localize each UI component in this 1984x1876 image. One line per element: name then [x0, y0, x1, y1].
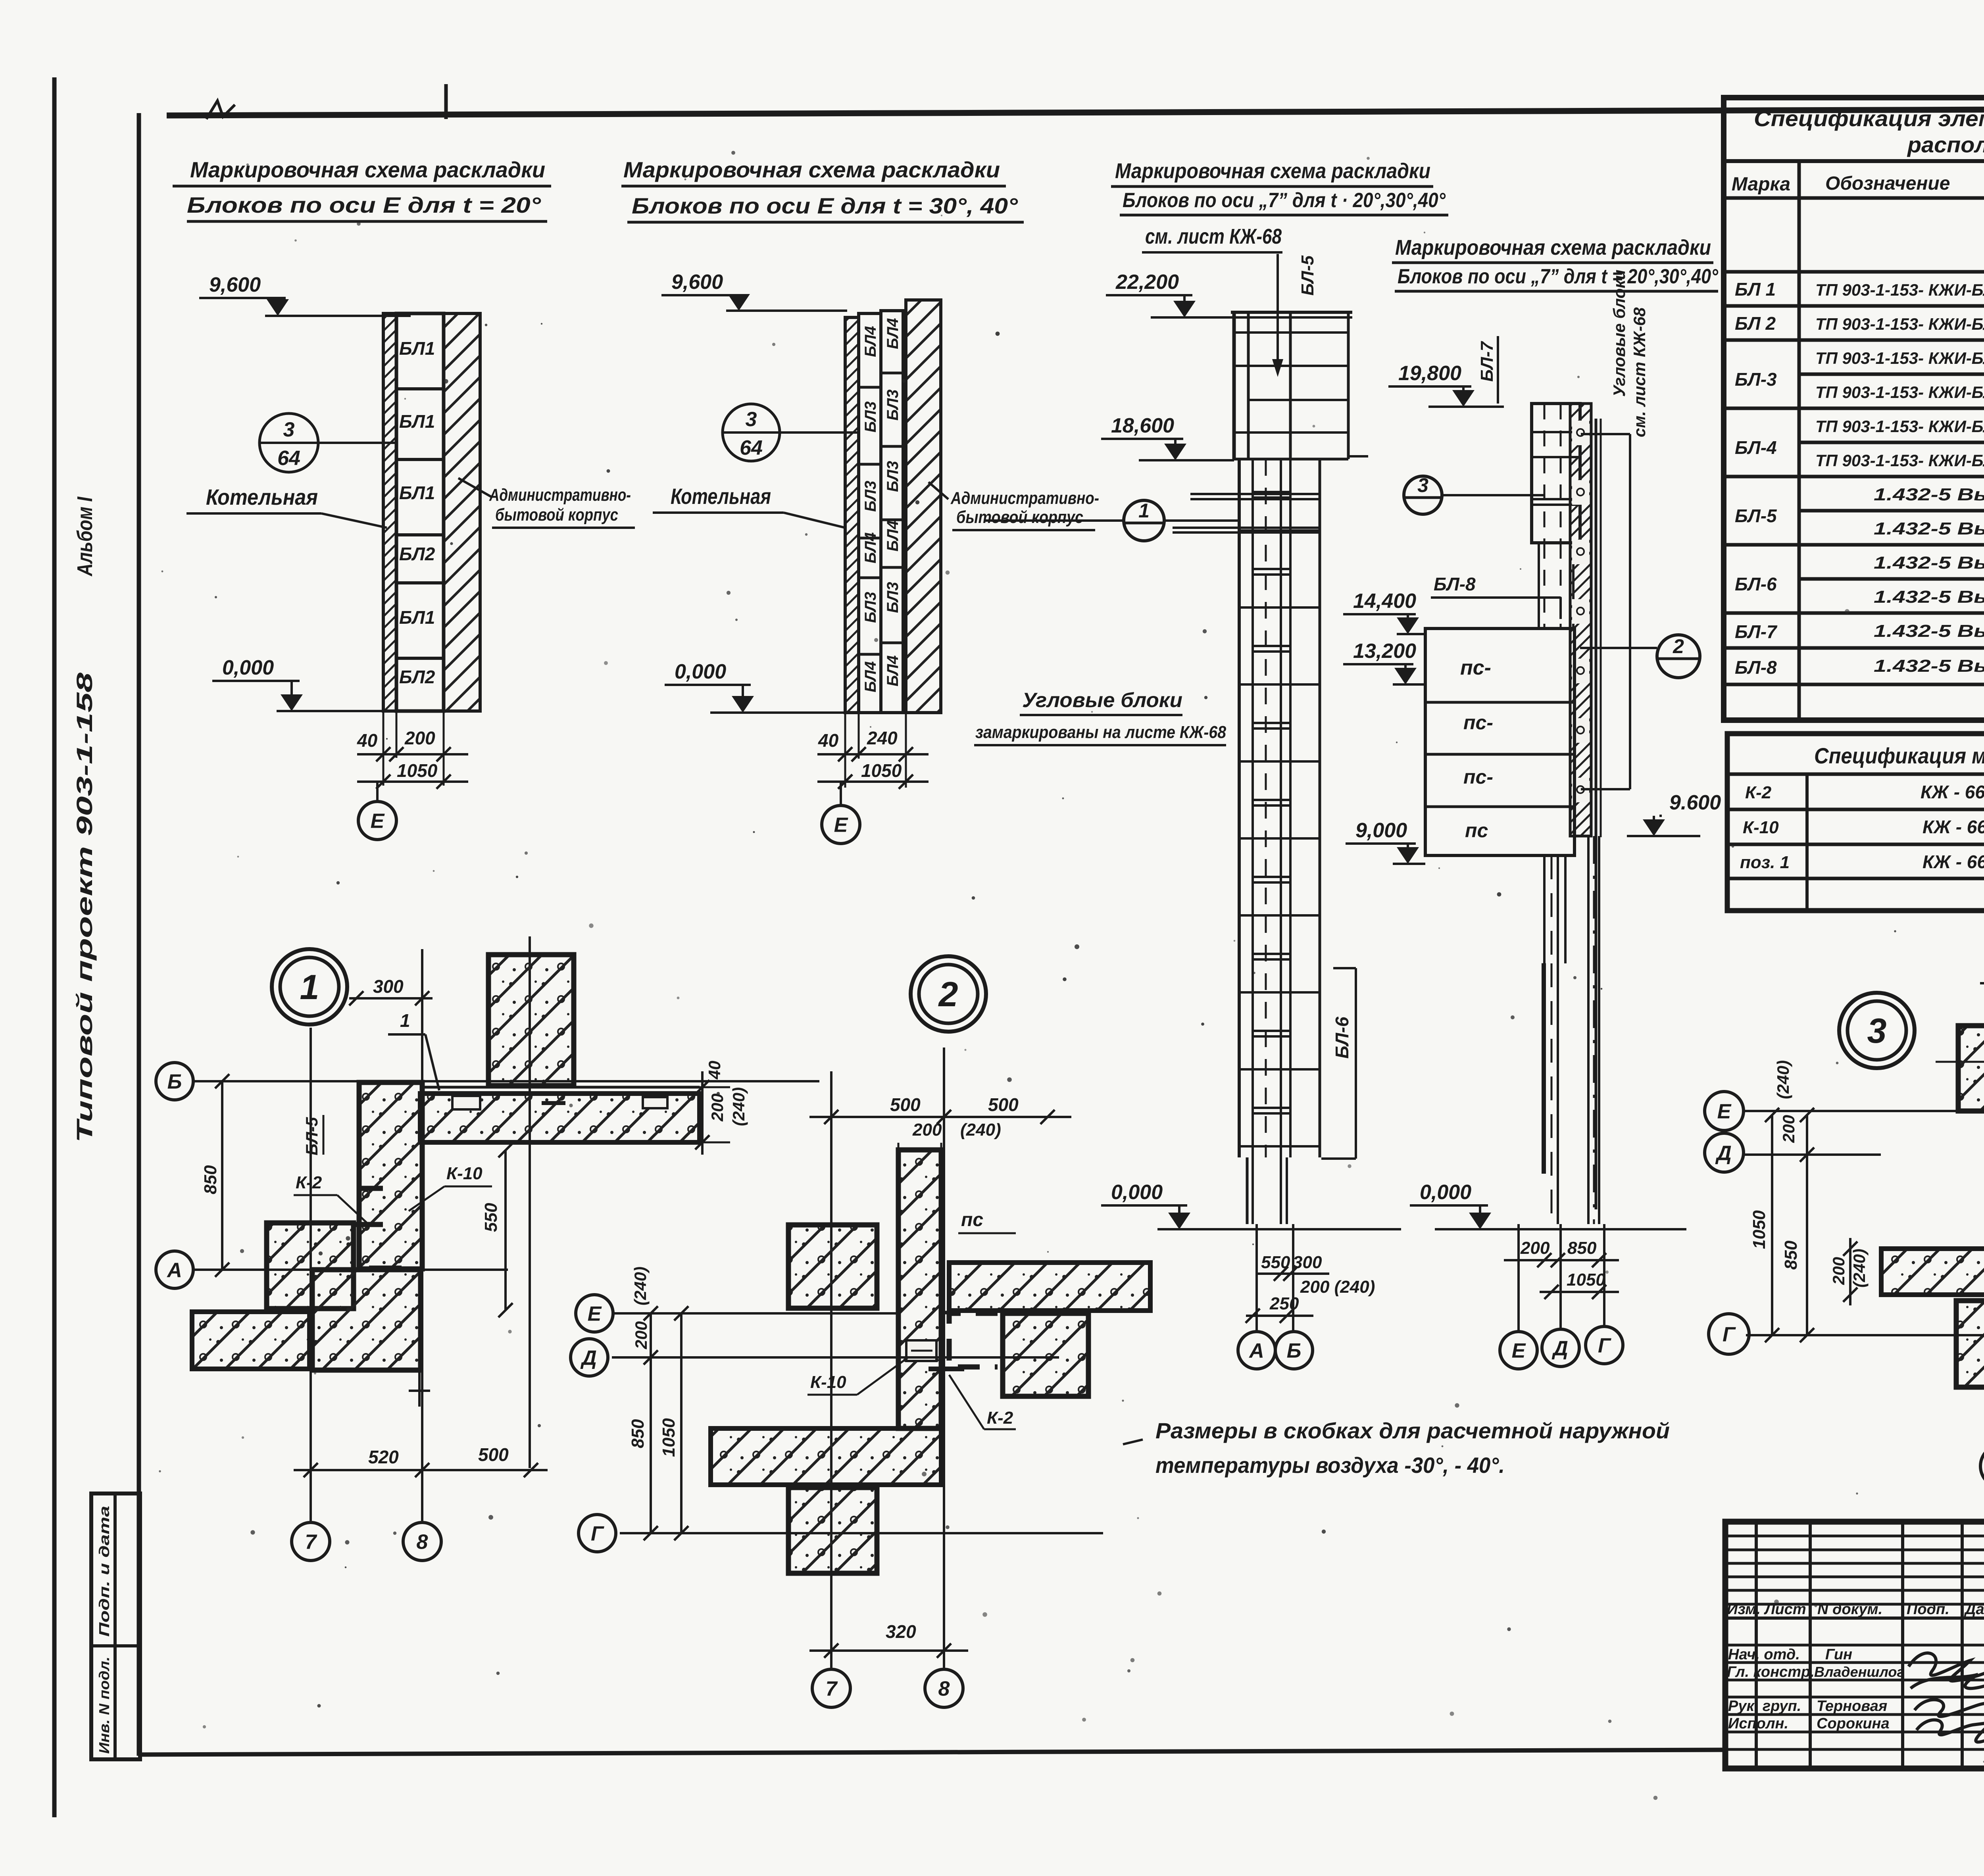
svg-text:9,600: 9,600: [671, 271, 723, 294]
sheet frame bottom border: [139, 1750, 1727, 1755]
svg-text:9,600: 9,600: [209, 273, 261, 296]
svg-text:пс-: пс-: [1460, 656, 1491, 679]
svg-text:БЛ-3: БЛ-3: [1735, 369, 1777, 390]
detail 2 axis D line: [612, 1356, 1059, 1359]
scheme 2 building hatch: [906, 300, 941, 713]
scheme 2 dim line upper: [817, 753, 929, 755]
svg-text:Блоков по оси Е дл: Блоков по оси Е для t = 20°: [187, 192, 541, 217]
PS panel dividers: [1425, 701, 1575, 704]
detail 3 bottom slab: [1881, 1249, 1984, 1295]
svg-text:бытовой корпус: бытовой корпус: [956, 507, 1083, 527]
detail 1 bottom slab: [192, 1312, 310, 1369]
scheme 2 section mark 3/64: [723, 404, 780, 461]
svg-text:14,400: 14,400: [1353, 590, 1416, 613]
svg-text:2: 2: [1673, 635, 1684, 657]
svg-text:200: 200: [912, 1120, 942, 1140]
detail 1 extension line top block: [529, 936, 531, 1468]
svg-text:БЛ1: БЛ1: [399, 338, 435, 359]
svg-text:Спецификация элементов к м: Спецификация элементов к маркировочным с…: [1754, 106, 1984, 131]
svg-text:БЛ4: БЛ4: [884, 318, 902, 349]
column 2 top box rungs: [1532, 431, 1580, 433]
scheme 3 title underline 2: [1120, 214, 1448, 217]
svg-text:пс: пс: [1465, 819, 1488, 842]
svg-text:(240): (240): [729, 1087, 748, 1126]
column 2 top box: [1532, 404, 1580, 543]
svg-text:200: 200: [1779, 1115, 1798, 1143]
svg-text:Г: Г: [591, 1522, 604, 1545]
detail 1 axis bubble B: [156, 1063, 193, 1100]
svg-text:БЛ-5: БЛ-5: [302, 1117, 321, 1155]
scheme 2 dim line lower: [817, 780, 929, 783]
uzel mark 3 leader: [1442, 494, 1544, 496]
spec table horizontal lines: [1724, 159, 1984, 163]
axis bubble G2: [1586, 1326, 1623, 1364]
svg-text:БЛ3: БЛ3: [884, 582, 902, 613]
column 1 shaft verticals: [1238, 459, 1241, 1157]
svg-text:пс: пс: [961, 1209, 983, 1230]
detail 2 axis bubble 8: [925, 1669, 963, 1707]
detail 1 axis 8 line: [421, 949, 423, 1521]
svg-text:1: 1: [400, 1010, 410, 1031]
svg-text:(240): (240): [1774, 1060, 1792, 1099]
svg-text:Административно-: Административно-: [489, 485, 631, 505]
detail 1 joint marks: [369, 1266, 402, 1271]
column 2 top box dashes: [1544, 404, 1546, 543]
title block vertical lines left: [1755, 1522, 1758, 1768]
svg-text:200: 200: [404, 728, 435, 748]
svg-text:200: 200: [632, 1321, 650, 1349]
svg-text:Рук. груп.: Рук. груп.: [1728, 1698, 1801, 1715]
detail 1 block top: [488, 955, 574, 1086]
svg-text:К-2: К-2: [987, 1408, 1013, 1428]
svg-text:200: 200: [1829, 1257, 1848, 1285]
svg-text:(240): (240): [1850, 1249, 1869, 1288]
svg-text:Е: Е: [1512, 1340, 1526, 1363]
scheme 3 title underline 1: [1111, 185, 1433, 188]
PS panels box: [1425, 629, 1575, 855]
svg-text:БЛ-5: БЛ-5: [1298, 255, 1317, 296]
sheet frame top border: [167, 108, 1984, 115]
scheme 1 axis bubble E: [358, 802, 396, 840]
svg-text:18,600: 18,600: [1111, 414, 1174, 437]
detail 2 axis bubble D: [571, 1339, 608, 1376]
svg-text:Дата: Дата: [1964, 1601, 1984, 1618]
svg-text:0,000: 0,000: [1420, 1181, 1471, 1204]
svg-text:Маркировочная схема раскладки: Маркировочная схема раскладки: [1115, 159, 1430, 183]
svg-text:Б: Б: [1287, 1340, 1302, 1363]
column 2 strip lower: [1587, 836, 1590, 1224]
column 1 shaft rungs: [1253, 491, 1290, 493]
margin stamp box: [91, 1493, 140, 1759]
svg-text:Блоков по оси „7” для t = 20: Блоков по оси „7” для t = 20°,30°,40°: [1398, 265, 1719, 288]
svg-text:320: 320: [886, 1621, 916, 1642]
top border tick mark: [444, 84, 448, 119]
svg-text:1050: 1050: [397, 760, 438, 781]
detail 1 axis B line: [193, 1080, 819, 1082]
detail 1 slab top edge: [420, 1086, 700, 1089]
svg-text:БЛ-7: БЛ-7: [1735, 621, 1778, 642]
detail 1 axis A line: [193, 1269, 508, 1271]
label BL-6 bracket: [1355, 968, 1357, 1159]
svg-text:Марка: Марка: [1732, 174, 1790, 195]
svg-text:300: 300: [373, 976, 404, 997]
scheme 2 block wythe left: [859, 313, 881, 713]
svg-text:БЛ3: БЛ3: [862, 481, 879, 512]
svg-text:Маркировочная схема раскладки: Маркировочная схема раскладки: [1395, 236, 1711, 259]
uzel mark 2 circle: [1657, 635, 1700, 678]
detail 3 title circle: [1839, 993, 1915, 1068]
svg-text:БЛ3: БЛ3: [862, 401, 879, 432]
svg-text:ТП 903-1-153- КЖИ-БЛн36,БЛн5: ТП 903-1-153- КЖИ-БЛн36,БЛн54: [1815, 281, 1984, 299]
svg-text:19,800: 19,800: [1398, 362, 1461, 385]
scheme 2 axis bubble E: [822, 805, 860, 844]
svg-text:200 (240): 200 (240): [1300, 1277, 1375, 1297]
detail 2 axis 7 line: [830, 1071, 832, 1668]
svg-text:1050: 1050: [659, 1418, 679, 1457]
detail 2 block topleft: [788, 1225, 877, 1308]
svg-text:Исполн.: Исполн.: [1728, 1715, 1788, 1732]
detail 2 slab right: [949, 1263, 1150, 1311]
svg-text:0,000: 0,000: [1111, 1181, 1163, 1204]
column 1 bottom shaft: [1246, 1157, 1249, 1224]
svg-text:Размеры в скобках для расчетно: Размеры в скобках для расчетной наружной: [1155, 1418, 1670, 1443]
uzel mark 1 leader: [984, 519, 1124, 522]
scheme 2 title underline 2: [627, 221, 1024, 224]
detail 2 axis bubble E: [576, 1295, 613, 1332]
svg-text:3: 3: [1417, 474, 1428, 496]
detail 2 axis bubble 7: [812, 1669, 850, 1707]
svg-text:БЛ-4: БЛ-4: [1735, 437, 1777, 458]
svg-text:1.432-5 Вып. 1: 1.432-5 Вып. 1: [1874, 587, 1984, 607]
svg-text:БЛ3: БЛ3: [884, 389, 902, 421]
svg-text:1: 1: [300, 967, 319, 1007]
svg-text:500: 500: [478, 1444, 509, 1465]
detail 3 bottom block: [1956, 1301, 1984, 1387]
scan edge line: [52, 77, 57, 1817]
detail 1 axis bubble 7: [292, 1522, 330, 1561]
svg-text:Альбом I: Альбом I: [73, 496, 97, 577]
detail 2 block right: [1003, 1313, 1088, 1396]
scheme 2 axis E stub: [840, 782, 842, 805]
axis line A: [1255, 1224, 1258, 1332]
detail 2 dashed connector: [949, 1313, 998, 1367]
detail 2 axis bubble G: [579, 1515, 616, 1552]
detail 3 axis G line: [1746, 1334, 1984, 1336]
svg-text:1: 1: [1138, 500, 1150, 522]
detail 3 axis D line: [1742, 1153, 1881, 1156]
corner mark: [206, 101, 235, 119]
note dash: [1123, 1440, 1143, 1444]
detail 2 title circle: [911, 956, 986, 1032]
svg-text:9.600: 9.600: [1669, 791, 1721, 814]
detail 3 dim verticals: [1771, 1115, 1773, 1335]
svg-text:Нач. отд.: Нач. отд.: [1728, 1646, 1800, 1663]
detail 3 block topleft: [1958, 1026, 1984, 1111]
svg-text:ТП 903-1-153- КЖИ-БЛн33,БЛн51: ТП 903-1-153- КЖИ-БЛн33,БЛн51: [1815, 349, 1984, 367]
svg-text:64: 64: [740, 436, 763, 459]
svg-text:КЖ - 66: КЖ - 66: [1922, 817, 1984, 837]
svg-text:Изм. Лист: Изм. Лист: [1727, 1601, 1806, 1618]
scheme 2 block joints: [859, 386, 881, 389]
svg-text:Б: Б: [167, 1071, 182, 1094]
detail 2 axis E line: [614, 1312, 901, 1315]
svg-text:850: 850: [628, 1419, 648, 1448]
title block outer box: [1725, 1522, 1984, 1768]
detail 3 axis bubble D: [1705, 1133, 1744, 1172]
scheme 1 block column: [396, 313, 444, 711]
detail 2 connector plate: [906, 1340, 936, 1361]
svg-text:БЛ4: БЛ4: [862, 326, 879, 357]
spec2 outer box: [1727, 734, 1984, 911]
column 1 shaft dashed line: [1265, 459, 1267, 1157]
scheme 4 title underline 1: [1392, 261, 1713, 264]
svg-text:Д: Д: [1715, 1142, 1732, 1165]
axis bubble A: [1238, 1332, 1275, 1369]
svg-text:N докум.: N докум.: [1817, 1601, 1882, 1618]
svg-text:Блоков по оси Е для: Блоков по оси Е для t = 30°, 40°: [632, 193, 1018, 218]
margin stamp divider vertical: [113, 1493, 117, 1759]
uzel mark 3 circle: [1404, 476, 1442, 514]
svg-text:Гин: Гин: [1825, 1646, 1852, 1663]
svg-text:3: 3: [746, 408, 757, 431]
svg-text:БЛ1: БЛ1: [399, 482, 435, 503]
svg-text:Котельная: Котельная: [206, 484, 318, 509]
axis stubs EDG: [1517, 1224, 1520, 1332]
svg-text:8: 8: [417, 1531, 428, 1554]
scheme 1 axis E stub: [376, 782, 379, 802]
svg-text:200: 200: [1520, 1238, 1550, 1258]
svg-text:Типовой проект 903-1-158: Типовой проект 903-1-158: [72, 672, 97, 1143]
svg-text:40: 40: [357, 730, 378, 751]
spec2 vertical lines: [1805, 774, 1809, 911]
detail 1 axis bubble A: [156, 1251, 193, 1288]
svg-text:Блоков по оси „7” для t · 20: Блоков по оси „7” для t · 20°,30°,40°: [1123, 189, 1446, 212]
column 2 strip cells: [1572, 421, 1589, 445]
scheme 2 block wythe right: [881, 311, 903, 713]
svg-text:200: 200: [708, 1094, 727, 1122]
svg-text:БЛ-8: БЛ-8: [1735, 657, 1777, 678]
column 2 lower shaft 2: [1542, 963, 1546, 964]
svg-text:7: 7: [826, 1678, 838, 1701]
svg-text:40: 40: [818, 730, 839, 751]
svg-text:500: 500: [988, 1094, 1019, 1115]
svg-text:температуры воздуха -30°, - 40: температуры воздуха -30°, - 40°.: [1155, 1453, 1505, 1478]
scheme 4 title underline 2: [1395, 290, 1718, 293]
svg-text:К-10: К-10: [446, 1164, 483, 1183]
svg-text:1050: 1050: [1749, 1210, 1769, 1249]
detail 1 bottom block: [312, 1270, 421, 1370]
svg-text:БЛ3: БЛ3: [884, 461, 902, 492]
column 2 right boundary: [1595, 419, 1598, 1209]
svg-text:БЛ4: БЛ4: [862, 532, 879, 563]
svg-text:250: 250: [1269, 1294, 1299, 1313]
column 1 top cap: [1231, 311, 1352, 314]
uzel mark 2 leader: [1580, 647, 1657, 649]
detail 2 dim verticals: [650, 1313, 652, 1533]
svg-text:9,000: 9,000: [1355, 819, 1407, 842]
svg-text:см. лист КЖ-68: см. лист КЖ-68: [1145, 225, 1282, 248]
margin stamp divider horizontal: [91, 1644, 140, 1647]
title block signatures: [1909, 1653, 1984, 1681]
detail 2 column: [898, 1150, 941, 1428]
detail 3 slab top extension: [1936, 1061, 1984, 1063]
svg-text:БЛ2: БЛ2: [399, 667, 435, 687]
svg-text:8: 8: [938, 1678, 950, 1701]
sheet frame left border: [137, 113, 141, 1756]
svg-text:Владеншлог: Владеншлог: [1814, 1664, 1905, 1680]
svg-text:Г: Г: [1723, 1323, 1736, 1346]
detail 2 axis 8 line: [943, 1048, 945, 1668]
detail 3 axis bubble G: [1709, 1314, 1749, 1354]
scheme 2 extension lines: [844, 713, 846, 788]
svg-text:БЛ2: БЛ2: [399, 544, 435, 564]
svg-text:0,000: 0,000: [222, 656, 274, 679]
svg-text:Маркировочная схема раскладк: Маркировочная схема раскладки: [623, 157, 1000, 182]
detail 1 column stub: [418, 1370, 421, 1407]
detail 3 axis E line: [1743, 1110, 1958, 1112]
svg-text:БЛ-5: БЛ-5: [1735, 506, 1777, 526]
column 2 mid shaft: [1538, 543, 1540, 629]
axis line B: [1292, 1224, 1294, 1332]
svg-text:БЛ3: БЛ3: [862, 592, 879, 623]
svg-text:Д: Д: [1551, 1337, 1568, 1360]
spec table outer box: [1724, 98, 1984, 720]
svg-text:2: 2: [938, 975, 958, 1014]
svg-text:Административно-: Административно-: [950, 488, 1099, 508]
scheme 1 title underline 2: [187, 220, 547, 223]
detail 2 bottom slab: [711, 1428, 941, 1485]
svg-text:Угловые блоки: Угловые блоки: [1022, 689, 1182, 712]
svg-text:Г: Г: [1598, 1334, 1611, 1357]
column 2 lower shaft: [1543, 855, 1546, 963]
svg-text:(240): (240): [960, 1120, 1001, 1140]
svg-text:см. лист КЖ-68: см. лист КЖ-68: [1630, 307, 1649, 437]
scheme 1 block joints: [396, 387, 444, 390]
svg-text:ТП 903-1-153- КЖИ-БЛн34,БЛн52: ТП 903-1-153- КЖИ-БЛн34,БЛн52: [1815, 451, 1984, 470]
svg-text:500: 500: [890, 1094, 921, 1115]
svg-text:1.432-5 Вып. 1: 1.432-5 Вып. 1: [1874, 519, 1984, 538]
column 1 top box bottom: [1234, 458, 1348, 461]
svg-text:Инв. N подл.: Инв. N подл.: [96, 1657, 112, 1754]
axis bubble B: [1275, 1332, 1313, 1369]
svg-text:К-10: К-10: [810, 1372, 846, 1392]
column 1 long joint lines: [1190, 493, 1320, 495]
svg-text:БЛ-6: БЛ-6: [1735, 574, 1777, 594]
svg-text:(240): (240): [631, 1267, 650, 1305]
svg-text:850: 850: [201, 1165, 220, 1194]
column 1 top box rungs: [1234, 331, 1348, 334]
svg-text:Д: Д: [580, 1347, 597, 1370]
scheme 1 title underline 1: [173, 185, 551, 188]
detail 1 dim ticks right: [701, 1071, 704, 1155]
svg-text:БЛ1: БЛ1: [399, 411, 435, 432]
spec2 horizontal lines: [1727, 773, 1984, 776]
svg-text:300: 300: [1293, 1253, 1322, 1272]
svg-text:40: 40: [705, 1061, 724, 1080]
svg-text:расположенным на листе: расположенным на листе: [1907, 132, 1984, 157]
svg-text:1050: 1050: [1567, 1270, 1605, 1290]
spec table vertical lines: [1798, 161, 1801, 720]
svg-text:Обозначение: Обозначение: [1825, 173, 1950, 194]
detail 1 slab: [420, 1094, 700, 1142]
svg-text:850: 850: [1567, 1238, 1597, 1258]
svg-text:1050: 1050: [861, 760, 902, 781]
svg-text:520: 520: [368, 1447, 399, 1467]
detail 2 bottom block: [788, 1488, 877, 1573]
svg-text:К-2: К-2: [296, 1173, 322, 1192]
svg-text:БЛ-8: БЛ-8: [1434, 574, 1476, 594]
svg-text:Маркировочная схема раскладк: Маркировочная схема раскладки: [190, 157, 545, 182]
scheme 2 insulation strip: [845, 317, 859, 713]
svg-text:Котельная: Котельная: [671, 484, 771, 509]
svg-text:БЛ1: БЛ1: [399, 607, 435, 628]
corner blocks bracket: [1629, 434, 1631, 789]
svg-text:1.432-5 Вып. 1: 1.432-5 Вып. 1: [1874, 553, 1984, 573]
svg-text:13,200: 13,200: [1353, 640, 1416, 663]
svg-text:3: 3: [1867, 1011, 1887, 1050]
svg-text:1.432-5 Вып. 1: 1.432-5 Вып. 1: [1874, 485, 1984, 504]
svg-text:БЛ-6: БЛ-6: [1332, 1017, 1352, 1059]
svg-text:А: А: [166, 1259, 182, 1282]
svg-text:замаркированы на листе КЖ-68: замаркированы на листе КЖ-68: [975, 723, 1226, 742]
svg-text:БЛ 1: БЛ 1: [1735, 279, 1776, 300]
detail 1 axis bubble 8: [403, 1522, 441, 1561]
column 1 top box verticals: [1232, 312, 1236, 459]
svg-text:Угловые блоки: Угловые блоки: [1610, 270, 1628, 397]
detail 1 column: [359, 1082, 422, 1269]
scheme 1 extension lines: [383, 711, 384, 786]
scheme 1 dim line lower: [357, 780, 468, 783]
svg-text:550: 550: [481, 1203, 501, 1232]
svg-text:Е: Е: [834, 814, 848, 837]
svg-text:Гл. констр.: Гл. констр.: [1727, 1664, 1815, 1680]
svg-text:БЛ4: БЛ4: [884, 655, 902, 686]
svg-text:Спецификация металлических: Спецификация металлических элементов: [1814, 743, 1984, 768]
svg-text:1.432-5 Вып. 1: 1.432-5 Вып. 1: [1874, 656, 1984, 676]
svg-text:850: 850: [1781, 1240, 1801, 1270]
svg-text:КЖ - 66: КЖ - 66: [1922, 852, 1984, 872]
detail 1 axis 7 line: [310, 1028, 312, 1521]
scheme 1 building hatch: [444, 313, 480, 711]
scheme 3 leader to column top: [1277, 254, 1279, 365]
svg-text:поз. 1: поз. 1: [1740, 853, 1790, 872]
detail 1 title circle: [272, 949, 347, 1024]
svg-text:ТП 903-1-153- КЖИ-БЛн36,БЛн54: ТП 903-1-153- КЖИ-БЛн36,БЛн54: [1815, 315, 1984, 333]
axis bubble E2: [1500, 1332, 1537, 1369]
scheme 2 title underline 1: [621, 185, 1006, 188]
svg-text:БЛ4: БЛ4: [862, 661, 879, 692]
detail 3 axis bubble 7: [1980, 1445, 1984, 1488]
scheme 1 section mark 3/64: [260, 413, 318, 472]
svg-text:ТП 903-1-153- КЖИ-БЛн33,БЛн51: ТП 903-1-153- КЖИ-БЛн33,БЛн51: [1815, 417, 1984, 436]
svg-text:Сорокина: Сорокина: [1817, 1715, 1890, 1732]
svg-text:Подп. и дата: Подп. и дата: [96, 1506, 112, 1637]
column 2 hatched strip: [1570, 404, 1591, 836]
svg-text:БЛ-7: БЛ-7: [1477, 340, 1497, 382]
svg-text:3: 3: [283, 418, 295, 441]
svg-text:Е: Е: [371, 810, 385, 833]
svg-text:1.432-5 Вып. 1: 1.432-5 Вып. 1: [1874, 621, 1984, 641]
scheme 1 insulation strip: [383, 313, 396, 711]
svg-text:КЖ - 66: КЖ - 66: [1921, 782, 1984, 802]
svg-text:БЛ4: БЛ4: [884, 520, 902, 552]
detail 2 axis G line: [620, 1532, 1103, 1534]
axis bubble D2: [1542, 1329, 1579, 1367]
title block horizontal lines left: [1725, 1535, 1984, 1538]
svg-text:Терновая: Терновая: [1817, 1698, 1887, 1715]
detail 3 axis bubble E: [1705, 1092, 1744, 1130]
svg-text:БЛ 2: БЛ 2: [1735, 313, 1776, 334]
